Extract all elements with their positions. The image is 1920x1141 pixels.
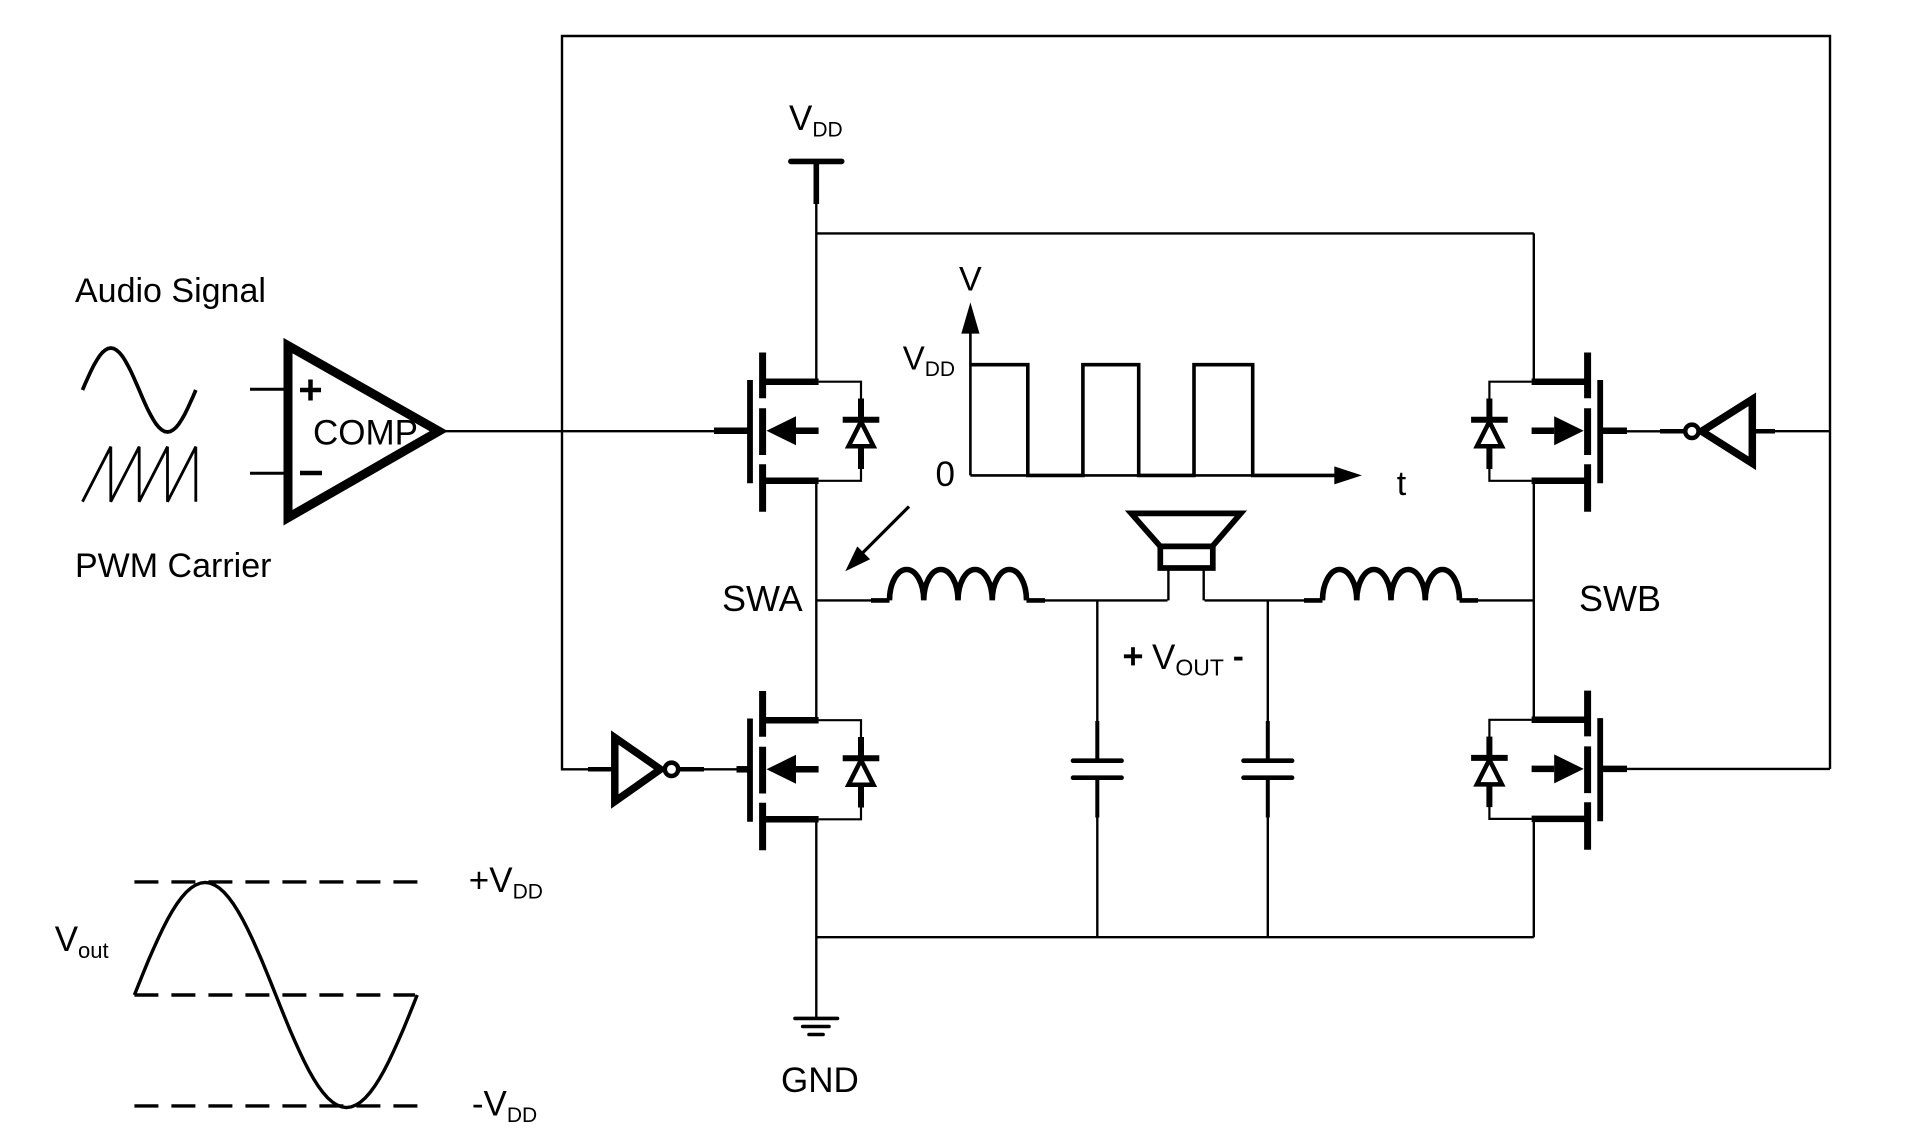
svg-text:COMP: COMP <box>313 414 418 453</box>
svg-text:GND: GND <box>781 1061 859 1100</box>
svg-text:V: V <box>959 261 982 299</box>
svg-text:SWA: SWA <box>722 578 803 619</box>
svg-text:0: 0 <box>936 455 955 494</box>
svg-text:PWM Carrier: PWM Carrier <box>75 547 271 585</box>
svg-text:t: t <box>1397 465 1407 503</box>
svg-text:SWB: SWB <box>1579 578 1661 619</box>
svg-text:Audio Signal: Audio Signal <box>75 272 266 310</box>
